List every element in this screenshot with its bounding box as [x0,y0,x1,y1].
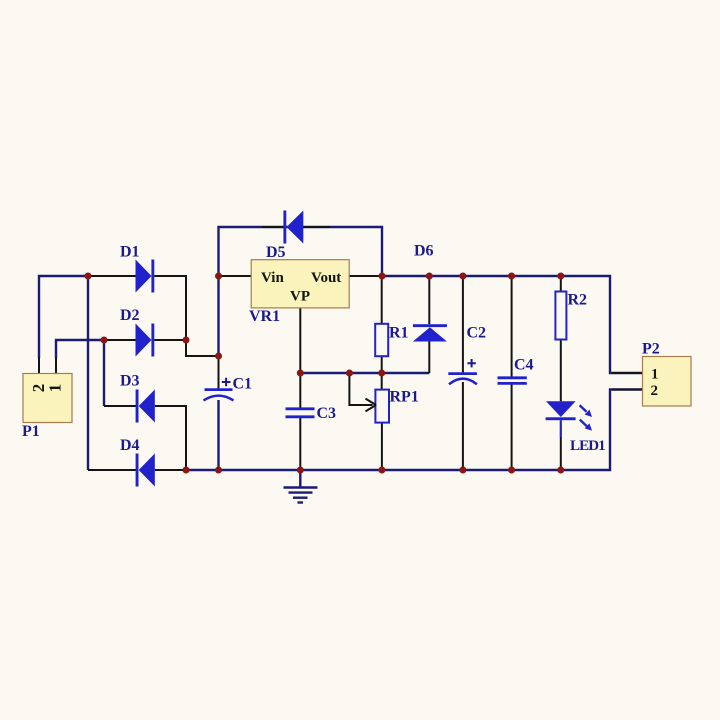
connector P1 [22,374,72,441]
wire R2 to LED1 [560,340,562,402]
node R1-RP1 rail junction [378,370,385,377]
wire RP1 top lead [381,373,383,390]
node C4 ground junction [508,467,515,474]
node RP1 ground junction [378,467,385,474]
svg-text:C1: C1 [233,376,253,393]
node C3 ground junction [297,467,304,474]
wire D6 anode lead [428,342,430,374]
resistor R1 [375,324,408,356]
capacitor C1 [204,376,253,401]
wire D3 anode to corner down to bottom bus [155,406,186,470]
svg-text:D1: D1 [120,244,140,261]
capacitor C2 [448,325,486,385]
wire R1 bottom lead [381,356,383,373]
wire RP1 wiper branch [349,373,372,405]
svg-text:C3: C3 [317,405,337,422]
svg-text:1: 1 [46,384,65,393]
wire AC1 vertical bus x=88 [87,276,89,470]
wire D4 row horizontal [88,469,136,471]
node R2 bus junction [557,273,564,280]
diode D6 [413,243,447,342]
node LED1 ground junction [557,467,564,474]
svg-text:Vout: Vout [311,270,341,286]
diode D3 [120,373,155,423]
svg-text:P2: P2 [642,341,660,358]
wire bottom ground bus [186,390,643,471]
svg-text:1: 1 [651,366,659,382]
node C2 ground junction [459,467,466,474]
wire C1 bottom lead [217,400,219,470]
wire C3 top lead [299,373,301,409]
capacitor C4 [498,357,534,384]
node VP rail left junction [297,370,304,377]
node C4 bus junction [508,273,515,280]
LED LED1 [546,401,606,454]
wire P1 pin stubs [39,357,56,374]
wire R1 top lead [381,276,383,324]
node C1 bottom junction [215,467,222,474]
svg-text:D6: D6 [414,243,434,260]
wire C2 bottom lead [462,382,464,470]
svg-text:C2: C2 [467,325,487,342]
wire D1 row horizontal [88,275,136,277]
ground [284,470,318,503]
svg-text:Vin: Vin [261,270,284,286]
svg-text:D2: D2 [120,307,140,324]
resistor R2 [555,292,587,340]
wire C1 top lead [218,356,220,390]
wire P2 pin2 stub [612,389,643,391]
wire main output bus y=276 [382,276,643,373]
node Vin junction [215,273,222,280]
wire R2 top lead [560,276,562,292]
capacitor C3 [286,405,337,422]
svg-text:R1: R1 [389,325,409,342]
wire P2 pin1 stub [612,372,643,374]
svg-text:2: 2 [651,383,659,399]
svg-text:D3: D3 [120,373,140,390]
wire LED1 cathode to bottom bus [560,437,562,470]
svg-text:LED1: LED1 [570,438,605,454]
wire AC2 vertical x=104 [103,340,105,406]
wire D6 cathode lead up to bus [428,276,430,324]
wire C4 bottom lead [511,383,513,470]
node wiper rail junction [346,370,353,377]
wire D3 row horizontal [104,405,136,407]
regulator VR1 [249,260,349,325]
node D6 bus junction [426,273,433,280]
wire C1 vertical top [217,276,219,356]
svg-text:VR1: VR1 [249,308,280,325]
wire P1 pin2 to AC1 node [39,276,88,358]
node AC2 junction [101,337,108,344]
svg-text:VP: VP [290,289,310,305]
wire D2 row horizontal [104,339,136,341]
node D2 cathode junction [183,337,190,344]
diode D4 [120,437,155,487]
wire RP1 bottom lead [381,423,383,470]
wire P1 pin1 to AC2 node [56,340,104,358]
svg-text:RP1: RP1 [390,389,419,406]
wire VP pin down to adj rail [299,308,301,373]
node AC1 junction [85,273,92,280]
wire adj rail y=373 [300,372,429,374]
potentiometer RP1 [366,389,419,423]
svg-text:P1: P1 [22,423,40,440]
node D3 anode bus junction [183,467,190,474]
wire Vin pin [219,275,252,277]
svg-text:D4: D4 [120,437,140,454]
wire D5 top loop [219,227,383,276]
connector P2 [642,341,691,407]
node C2 bus junction [459,273,466,280]
diode D5 [266,211,303,262]
svg-text:C4: C4 [514,357,534,374]
wire D5 lead stubs [262,226,330,228]
diode D1 [120,244,154,293]
node C1 top junction [215,353,222,360]
node Vout junction [379,273,386,280]
wire C3 bottom lead [299,417,301,471]
diode D2 [120,307,154,357]
wire C4 top lead [511,276,513,378]
wire C2 top lead [462,276,464,374]
wire Vout pin [349,275,382,277]
wire D4 anode to bottom bus [155,469,186,471]
svg-text:R2: R2 [568,292,588,309]
svg-text:D5: D5 [266,244,286,261]
wire bridge output corner to C1 node [186,340,219,356]
wire D2 cathode to corner [154,339,186,341]
wire D1 cathode to corner and down to D2 row [154,276,186,340]
